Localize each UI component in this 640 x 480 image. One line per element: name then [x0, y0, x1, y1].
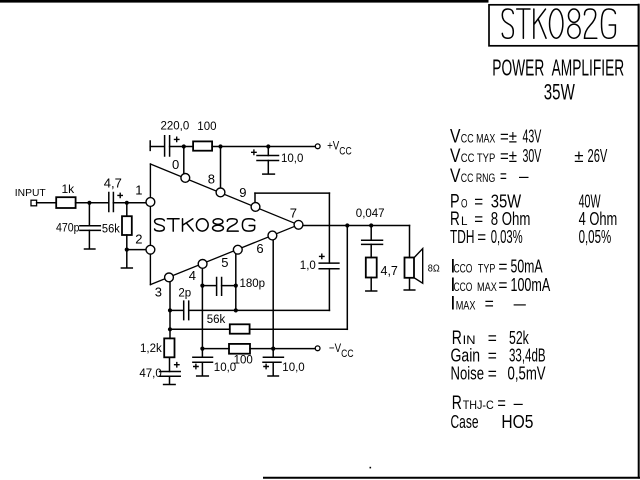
node pin3 2p [168, 308, 172, 312]
wire 180p right [222, 285, 236, 287]
svg-text:8: 8 [208, 172, 215, 187]
svg-text:=±: =± [500, 126, 517, 146]
svg-text:43V: 43V [523, 125, 542, 146]
svg-text:V: V [450, 166, 461, 187]
wire 1,2k to 47,0 [169, 357, 171, 371]
plus 47,0 [174, 362, 180, 368]
svg-text:9: 9 [239, 185, 246, 200]
svg-text:4: 4 [189, 268, 196, 283]
node pin5 2p [234, 308, 238, 312]
svg-text:1,0: 1,0 [300, 260, 316, 272]
svg-text:MAX: MAX [456, 298, 476, 312]
title STK082G hand-drawn stroke glyphs [155, 9, 616, 231]
node pin4 180p [200, 284, 204, 288]
junction dots [87, 144, 373, 350]
label +Vcc [327, 140, 352, 158]
wire 100 to -Vcc terminal [250, 348, 315, 350]
svg-text:5: 5 [221, 255, 228, 270]
capacitor 1,0 plates [319, 263, 339, 269]
svg-text:–: – [514, 293, 527, 313]
capacitor 10,0 stem top [267, 147, 269, 156]
svg-text:0,03%: 0,03% [491, 226, 523, 247]
svg-text:1: 1 [135, 183, 142, 198]
wire output down to speaker [409, 226, 411, 258]
svg-text:–: – [514, 393, 523, 413]
plus 10,0 left [193, 364, 199, 370]
ground [366, 290, 377, 292]
svg-text:7: 7 [290, 206, 297, 221]
svg-text:=: = [498, 275, 507, 295]
speaker box [405, 258, 415, 278]
svg-text:POWER: POWER [492, 55, 544, 81]
capacitor 180p plates [217, 278, 222, 296]
label -Vcc [329, 342, 354, 360]
wire 10,0 left to ground [201, 362, 203, 375]
svg-text:TDH: TDH [450, 226, 474, 247]
resistor 100 top [193, 141, 212, 150]
svg-text:=: = [500, 166, 507, 186]
node pin3 56k [168, 327, 172, 331]
capacitor 0,047 plates [362, 240, 383, 244]
svg-text:0,5mV: 0,5mV [508, 362, 547, 383]
capacitor 0,047 stem [370, 226, 372, 241]
wire 0,047 to 4,7 [370, 244, 372, 257]
wire 1k to 4,7 cap [76, 202, 109, 204]
svg-text:47,0: 47,0 [139, 368, 161, 380]
svg-text:=: = [485, 293, 494, 313]
pin 2 [146, 245, 155, 254]
svg-text:=: = [488, 363, 497, 383]
node pin0 rail [182, 144, 186, 148]
wire pin 9 up [254, 193, 256, 202]
wire 1,0 to 2p line [328, 269, 330, 311]
input terminal [31, 200, 37, 206]
svg-text:AMPLIFIER: AMPLIFIER [552, 55, 625, 81]
wire 180p left [202, 285, 216, 287]
op-amp triangle top edge [150, 164, 298, 225]
resistor 56k feedback [230, 324, 250, 333]
svg-text:220,0: 220,0 [161, 121, 190, 133]
wire 56k to output [250, 328, 348, 330]
node output 0,047 [369, 223, 373, 227]
wire 56k feedback line [170, 328, 230, 330]
wire pin 3 stem [169, 282, 171, 311]
pin 9 [251, 203, 260, 212]
plus 4,7 input [117, 193, 123, 199]
svg-text:8Ω: 8Ω [428, 263, 440, 275]
capacitor 4,7 plates [109, 193, 114, 212]
svg-text:O: O [461, 197, 468, 211]
pin 4 [198, 260, 207, 269]
capacitor 470p plates [80, 226, 100, 231]
svg-text:2p: 2p [178, 288, 191, 300]
svg-text:INPUT: INPUT [15, 188, 47, 199]
pin 0 [181, 174, 190, 183]
terminal +Vcc [315, 144, 320, 149]
resistor 4,7 [366, 258, 377, 278]
capacitor 10,0 left plates [193, 357, 213, 362]
svg-text:2: 2 [135, 231, 142, 246]
node pin4 -Vcc rail [200, 347, 204, 351]
wire speaker to ground [409, 278, 411, 290]
svg-text:6: 6 [256, 241, 263, 256]
svg-text:100: 100 [234, 354, 253, 366]
svg-text:=: = [498, 257, 507, 277]
svg-text:3: 3 [155, 284, 162, 299]
wire 10,0 right to ground [272, 362, 274, 375]
wire 2p line left [170, 309, 183, 311]
capacitor 220,0 plates [165, 136, 170, 156]
svg-text:THJ-C: THJ-C [463, 398, 494, 412]
svg-text:0,05%: 0,05% [579, 226, 612, 247]
svg-text:CCO: CCO [454, 280, 473, 294]
ground [197, 375, 209, 377]
svg-text:1,2k: 1,2k [140, 343, 162, 355]
wire 4,7 cap to pin 1 [113, 202, 146, 204]
plus signs [117, 137, 324, 370]
svg-text:CCO: CCO [454, 262, 473, 276]
spec text block [450, 125, 617, 432]
wire to pin 2 [127, 249, 147, 251]
svg-text:HO5: HO5 [501, 411, 533, 432]
plus 10,0 right [263, 364, 269, 370]
plus 220,0 [174, 137, 180, 143]
terminal -Vcc [315, 346, 320, 351]
plus 1,0 [319, 254, 325, 260]
pin 5 [233, 245, 242, 254]
wire down to 1,0 [328, 193, 330, 263]
svg-text:10,0: 10,0 [214, 362, 236, 374]
capacitor 2p plates [184, 301, 189, 320]
wire pin 4 stem [201, 268, 203, 349]
speaker horn [414, 249, 423, 284]
ground [121, 267, 132, 269]
pin 8 [216, 188, 225, 197]
capacitor 10,0 left stem [201, 349, 203, 357]
svg-text:0: 0 [172, 157, 179, 172]
node output feedback [345, 223, 349, 227]
wire stub left of 220,0 [149, 141, 151, 150]
capacitor 47,0 plates [160, 372, 181, 377]
pin circles [146, 174, 303, 282]
pin 3 [165, 273, 174, 282]
pin 1 [146, 198, 155, 207]
node pin6 -Vcc rail [271, 347, 275, 351]
ground [404, 289, 415, 291]
wire feedback up to output [346, 226, 348, 330]
svg-text:100: 100 [197, 121, 216, 133]
capacitor 10,0 plates [257, 156, 279, 161]
svg-text:26V: 26V [588, 145, 608, 166]
schematic labels [15, 121, 440, 381]
wire 470p to ground [88, 230, 90, 248]
svg-text:–: – [519, 166, 529, 186]
svg-text:4,7: 4,7 [104, 176, 122, 191]
node pin5 180p [234, 284, 238, 288]
capacitor 10,0 right plates [263, 357, 283, 362]
pin number labels [135, 157, 297, 300]
node pin8 rail [218, 144, 222, 148]
svg-text:180p: 180p [240, 278, 266, 290]
svg-text:10,0: 10,0 [282, 362, 304, 374]
wire 100 to +Vcc terminal [212, 146, 315, 148]
wire 56k to pin2 node [126, 235, 128, 250]
svg-text:56k: 56k [102, 224, 120, 236]
wire pin 6 stem [272, 240, 274, 349]
right border line [638, 5, 640, 478]
svg-text:MAX: MAX [477, 280, 497, 294]
title box STK082G [489, 5, 639, 46]
wire 47,0 to ground [169, 376, 171, 383]
resistor 100 bottom [229, 344, 250, 354]
svg-text:V: V [450, 146, 461, 167]
svg-text:=: = [497, 393, 506, 413]
svg-text:10,0: 10,0 [281, 153, 303, 165]
capacitor 470p stem [88, 203, 90, 225]
wire output from pin 7 [303, 225, 410, 227]
svg-text:56k: 56k [207, 314, 226, 326]
wire pin3 node down [169, 310, 171, 338]
svg-text:V: V [450, 126, 461, 147]
wire pin 0 stem [183, 147, 185, 174]
svg-text:1k: 1k [62, 182, 76, 196]
svg-text:0,047: 0,047 [356, 208, 385, 220]
top border bar [0, 0, 489, 3]
svg-text:CC TYP: CC TYP [461, 151, 496, 165]
ground [164, 384, 176, 386]
wire -Vcc rail [202, 348, 229, 350]
svg-text:4,7: 4,7 [381, 264, 398, 278]
node pin2 [125, 248, 129, 252]
ground [85, 248, 95, 250]
wire 220,0 to 100 [170, 146, 194, 148]
wire 2p line right [189, 309, 330, 311]
resistor 1k [56, 197, 75, 208]
svg-text:TYP: TYP [478, 262, 495, 276]
label STK082G inside op-amp (stroke glyphs) [155, 219, 255, 231]
node 10,0 rail [266, 144, 270, 148]
stray dot [370, 467, 372, 469]
wire pin1 node to 56k [126, 203, 128, 216]
wire 4,7 to ground [370, 278, 372, 291]
svg-text:35W: 35W [544, 80, 576, 105]
op-amp triangle left edge [149, 164, 151, 285]
wire pin2 node to ground [126, 250, 128, 268]
resistor 56k vertical [122, 216, 132, 235]
pin 7 [294, 220, 303, 229]
svg-text:100mA: 100mA [511, 274, 551, 295]
wire input to 1k [37, 202, 57, 204]
wire 10,0 to ground [267, 161, 269, 174]
resistor 1,2k [164, 338, 174, 357]
wire pin 5 stem [235, 254, 237, 310]
svg-text:CC RNG: CC RNG [461, 171, 496, 185]
node input/470p [87, 201, 91, 205]
svg-text:CC MAX: CC MAX [461, 131, 496, 145]
wire pin 9 right [255, 192, 329, 194]
wire stub to 220,0 [150, 146, 164, 148]
wire pin 8 stem [220, 147, 222, 188]
ground [263, 173, 275, 175]
plus 10,0 top [251, 149, 257, 155]
node pin1 [125, 201, 129, 205]
capacitor 10,0 right stem [272, 349, 274, 357]
op-amp triangle bottom edge [150, 225, 298, 285]
svg-text:Case: Case [451, 411, 479, 432]
svg-text:±: ± [574, 146, 584, 166]
svg-text:470p: 470p [56, 222, 80, 234]
svg-text:=±: =± [500, 146, 517, 166]
pin 6 [268, 231, 277, 240]
svg-text:30V: 30V [523, 145, 542, 166]
bottom border line [264, 477, 640, 479]
svg-text:Noise: Noise [451, 362, 485, 383]
svg-text:=: = [477, 227, 486, 247]
ground [268, 375, 278, 377]
